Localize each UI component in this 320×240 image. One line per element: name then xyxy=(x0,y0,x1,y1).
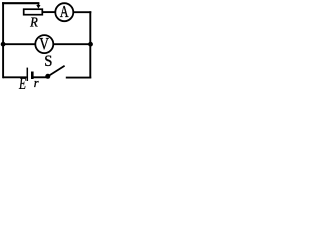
svg-text:V: V xyxy=(39,34,49,53)
svg-text:S: S xyxy=(44,54,52,70)
wire left vertical xyxy=(2,2,4,78)
battery short plate xyxy=(31,72,34,80)
battery long plate xyxy=(26,68,28,81)
rheostat slider arrow xyxy=(36,3,40,8)
wire top horizontal xyxy=(2,2,39,4)
voltmeter V xyxy=(35,34,53,53)
node junction dot right xyxy=(88,42,93,47)
wire left to voltmeter xyxy=(3,43,35,45)
svg-text:R: R xyxy=(29,14,38,30)
wire ammeter to top-right corner xyxy=(73,11,91,13)
wire switch to bottom-right corner xyxy=(66,77,91,79)
resistor R (rheostat body) xyxy=(24,9,43,15)
wire voltmeter to right xyxy=(54,43,91,45)
wire right vertical xyxy=(89,11,91,78)
wire battery to switch xyxy=(33,76,46,78)
svg-text:A: A xyxy=(60,3,69,21)
wire bottom-left to battery xyxy=(3,76,26,78)
svg-text:E: E xyxy=(18,75,26,89)
node junction dot left xyxy=(1,42,6,47)
ammeter A xyxy=(55,3,73,21)
switch S pivot dot xyxy=(45,74,50,79)
wire resistor to ammeter xyxy=(43,11,55,13)
switch blade xyxy=(49,66,64,76)
